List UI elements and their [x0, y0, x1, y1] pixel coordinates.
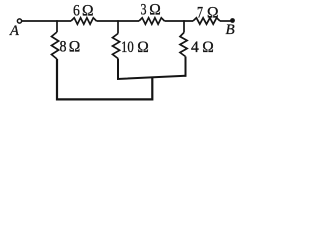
svg-text:8Ω: 8Ω: [60, 39, 81, 56]
svg-text:6Ω: 6Ω: [73, 3, 94, 20]
svg-text:10Ω: 10Ω: [121, 39, 149, 56]
svg-text:7Ω: 7Ω: [197, 5, 219, 22]
svg-text:B: B: [226, 22, 235, 38]
svg-text:A: A: [9, 23, 19, 39]
svg-text:3Ω: 3Ω: [141, 2, 161, 19]
svg-text:4Ω: 4Ω: [191, 39, 214, 56]
